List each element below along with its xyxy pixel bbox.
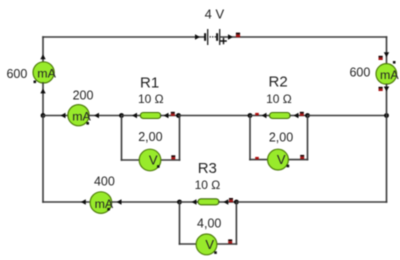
svg-text:2,00: 2,00 bbox=[138, 130, 162, 144]
resistor R3 10 Ω bbox=[195, 160, 221, 205]
wire V2 loop right bbox=[307, 116, 309, 160]
svg-text:V: V bbox=[205, 237, 214, 252]
node F (R3 left junction) bbox=[177, 200, 182, 205]
svg-text:mA: mA bbox=[37, 67, 56, 81]
node B (R1 right junction) bbox=[176, 113, 181, 118]
wire left upper bbox=[40, 37, 45, 63]
svg-text:R1: R1 bbox=[140, 75, 159, 92]
ammeter M2 200 mA bbox=[68, 88, 94, 126]
svg-text:2,00: 2,00 bbox=[269, 131, 293, 145]
wire bottom: node F to R3 bbox=[180, 199, 199, 204]
svg-text:mA: mA bbox=[72, 109, 91, 123]
node D (R2 right junction) bbox=[305, 113, 310, 118]
svg-text:mA: mA bbox=[95, 197, 114, 211]
svg-text:600: 600 bbox=[349, 66, 370, 80]
wire V1 loop left bbox=[121, 116, 123, 161]
wire middle: R2 to node D bbox=[290, 112, 307, 118]
svg-text:4 V: 4 V bbox=[205, 6, 225, 21]
svg-text:10 Ω: 10 Ω bbox=[195, 178, 221, 192]
wire bottom: left to M4 bbox=[43, 199, 90, 204]
node G (R3 right junction) bbox=[234, 200, 239, 205]
node C (R2 left junction) bbox=[248, 113, 253, 118]
wire middle: R1 to node B bbox=[161, 112, 179, 118]
resistor R2 10 Ω bbox=[266, 74, 292, 119]
svg-text:600: 600 bbox=[6, 67, 27, 81]
wire middle: node D to right wire bbox=[308, 115, 387, 117]
wire middle: node B to node C bbox=[179, 115, 251, 117]
node left-middle junction bbox=[41, 113, 46, 118]
voltmeter V1 2,00 bbox=[138, 130, 162, 171]
ammeter M3 600 mA bbox=[349, 61, 399, 84]
wire V2 loop bottom bbox=[250, 155, 308, 160]
wire bottom: R3 to node G bbox=[219, 198, 236, 205]
wire middle: node C to R2 bbox=[250, 113, 270, 118]
svg-text:R2: R2 bbox=[269, 74, 288, 91]
wire V1 loop right bbox=[179, 116, 181, 161]
wire V3 loop right bbox=[235, 202, 237, 244]
svg-text:R3: R3 bbox=[198, 160, 217, 177]
svg-text:4,00: 4,00 bbox=[197, 216, 221, 230]
svg-text:mA: mA bbox=[380, 68, 399, 82]
wire middle: node A to R1 bbox=[122, 113, 141, 118]
node E (right middle junction) bbox=[384, 113, 389, 118]
wire bottom: M4 to node F bbox=[112, 199, 180, 204]
svg-text:V: V bbox=[149, 152, 158, 167]
wire top-left segment bbox=[43, 34, 204, 39]
wire top-right segment bbox=[221, 33, 387, 40]
wire middle: M2 to node A bbox=[89, 113, 122, 118]
voltmeter V3 4,00 bbox=[196, 216, 221, 255]
svg-text:V: V bbox=[277, 152, 286, 167]
svg-text:400: 400 bbox=[94, 175, 115, 189]
wire middle: junction to M2 bbox=[43, 113, 69, 118]
wire left bottom bbox=[42, 116, 44, 203]
wire V2 loop left bbox=[249, 116, 251, 160]
wire V1 loop bottom bbox=[122, 155, 180, 160]
ammeter M4 400 mA bbox=[90, 175, 115, 214]
wire right bottom bbox=[386, 116, 388, 203]
wire left lower to junction bbox=[40, 83, 45, 116]
svg-text:200: 200 bbox=[73, 88, 94, 102]
wire bottom: node G to right bbox=[236, 201, 386, 203]
battery B1 4 V bbox=[204, 6, 226, 45]
wire right upper bbox=[379, 37, 390, 64]
ammeter M1 600 mA bbox=[6, 62, 56, 83]
resistor R1 10 Ω bbox=[138, 75, 164, 119]
wire right lower to junction bbox=[379, 85, 390, 116]
svg-text:10 Ω: 10 Ω bbox=[138, 92, 164, 106]
node A (R1 left junction) bbox=[119, 113, 124, 118]
svg-text:10 Ω: 10 Ω bbox=[266, 92, 292, 106]
wire V3 loop left bbox=[179, 202, 181, 244]
wire V3 loop bottom bbox=[180, 239, 237, 244]
voltmeter V2 2,00 bbox=[268, 131, 294, 170]
